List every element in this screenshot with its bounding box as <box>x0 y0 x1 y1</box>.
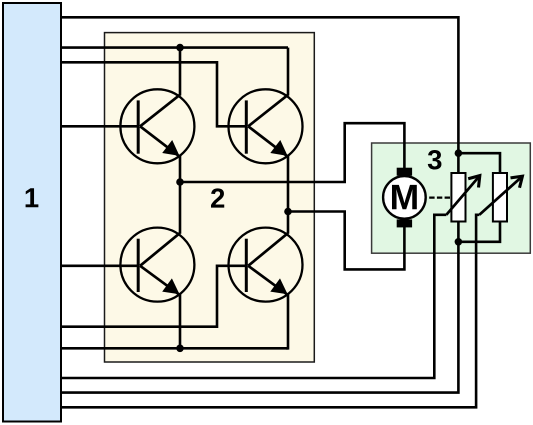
wire: pot element bottom return (ctrl pin9) <box>61 222 458 393</box>
wire: pot R2 wiper feedback (ctrl pin10) <box>61 215 479 407</box>
label 3 <box>428 150 442 170</box>
dashed link: motor shaft to pots <box>429 197 450 199</box>
wire: Q4 emitter to emitter rail <box>286 294 288 349</box>
junction: pot top rail <box>455 149 463 157</box>
wire: pot top rail <box>458 153 500 173</box>
block 2: H-bridge box <box>105 33 315 362</box>
transistor Q3 <box>120 228 194 302</box>
transistor Q1 <box>120 89 194 163</box>
wire: pot bottom rail <box>458 222 500 242</box>
junction: Q1 collector / rail <box>176 44 184 52</box>
junction: node A <box>176 178 184 186</box>
potentiometer R1 <box>446 173 479 222</box>
wire: emitter rail (ctrl pin7) <box>61 347 288 350</box>
wire: pot supply top (ctrl pin1 to pot element top) <box>61 17 458 173</box>
wire: base Q1 (ctrl pin4) <box>61 125 138 128</box>
junction: pot bottom rail <box>455 238 463 246</box>
wire: base Q3 (ctrl pin5) <box>61 264 138 267</box>
transistor Q2 <box>229 89 303 163</box>
junction: Q3 emitter / emitter rail <box>176 345 184 353</box>
wire: Q3 emitter to emitter rail <box>179 294 182 349</box>
wire: base Q4 (ctrl pin6) <box>61 266 246 327</box>
wire: collector rail (ctrl pin2) <box>61 46 288 49</box>
wire: pot R1 wiper feedback (ctrl pin8) <box>61 215 446 378</box>
wire: node B to motor bottom <box>288 212 404 270</box>
transistor Q4 <box>229 228 303 302</box>
wire: Q1 collector to rail <box>179 48 182 96</box>
wire: Q2 collector to rail <box>287 48 290 96</box>
wire: node A to motor top <box>180 123 404 182</box>
wire: base Q2 (ctrl pin3) <box>61 62 246 126</box>
wire: Q2 emitter to Q4 collector (node B) <box>287 156 290 234</box>
junction: node B <box>284 208 292 216</box>
wire: Q1 emitter to Q3 collector (node A) <box>179 156 182 234</box>
motor M <box>383 168 426 228</box>
label 2 <box>211 188 224 207</box>
potentiometer R2 <box>479 173 522 222</box>
block 3: motor + feedback box <box>372 143 531 253</box>
block 1: controller box <box>3 3 61 422</box>
